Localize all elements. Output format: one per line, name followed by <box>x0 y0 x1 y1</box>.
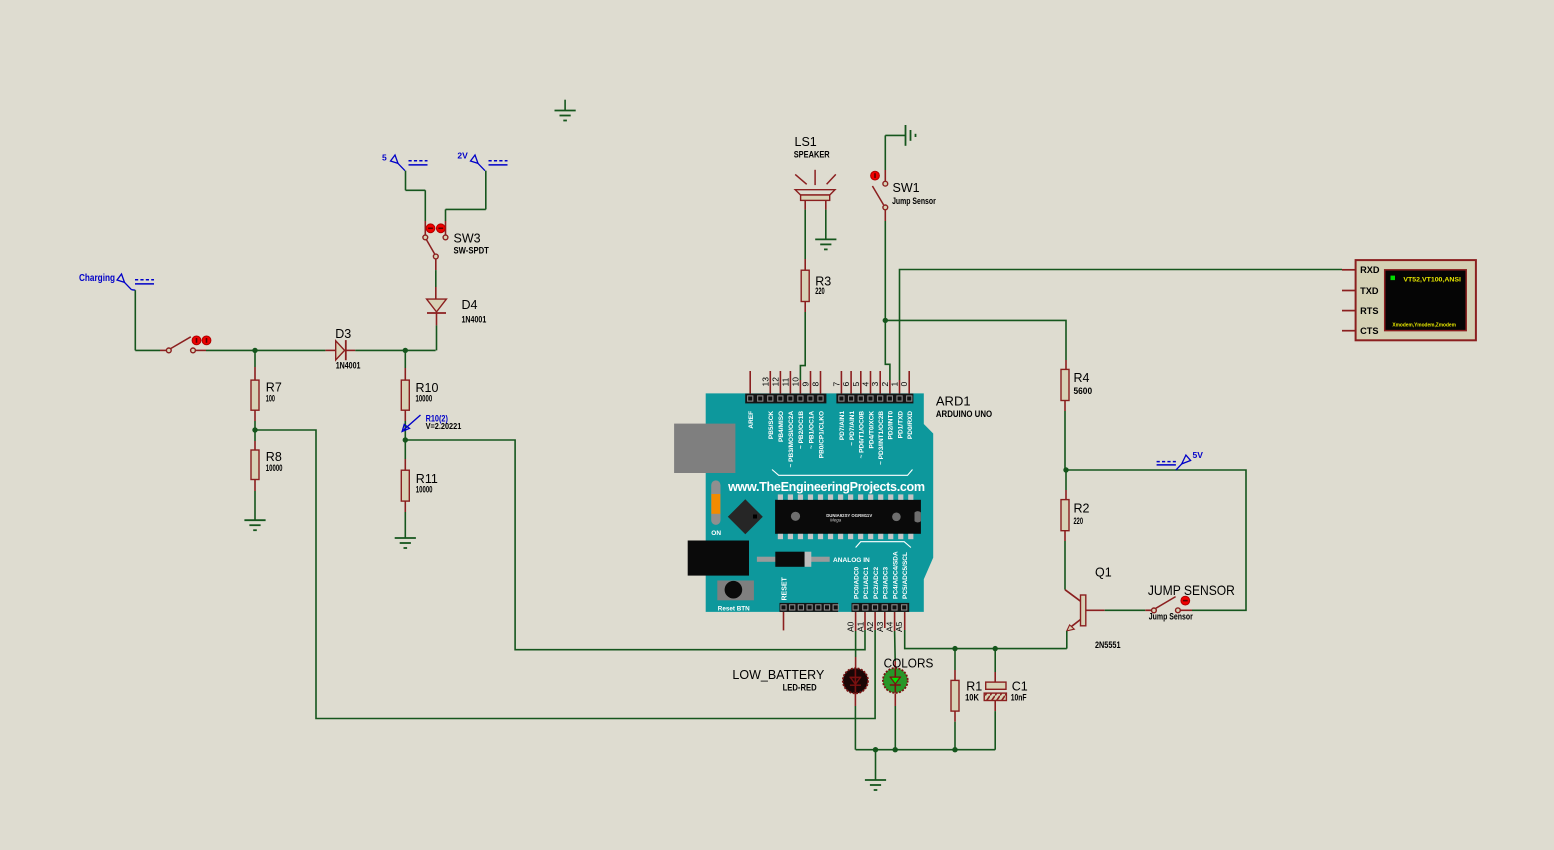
svg-text:A4: A4 <box>884 621 894 632</box>
svg-text:D3: D3 <box>335 327 351 341</box>
svg-text:12: 12 <box>770 377 780 387</box>
svg-text:R8: R8 <box>266 450 282 464</box>
svg-text:PB5/SCK: PB5/SCK <box>768 411 775 439</box>
svg-text:5600: 5600 <box>1074 386 1093 396</box>
svg-text:Reset BTN: Reset BTN <box>718 605 750 612</box>
svg-text:LED-RED: LED-RED <box>783 682 817 692</box>
svg-text:9: 9 <box>800 382 810 387</box>
svg-text:PC3/ADC3: PC3/ADC3 <box>883 566 890 599</box>
svg-text:1: 1 <box>890 382 900 387</box>
svg-text:JUMP SENSOR: JUMP SENSOR <box>1148 582 1235 598</box>
svg-text:LOW_BATTERY: LOW_BATTERY <box>732 668 825 682</box>
svg-text:www.TheEngineeringProjects.com: www.TheEngineeringProjects.com <box>727 480 925 494</box>
svg-text:PD0/RXD: PD0/RXD <box>907 411 914 439</box>
svg-text:RESET: RESET <box>782 576 789 600</box>
svg-text:220: 220 <box>1074 516 1084 526</box>
svg-text:A3: A3 <box>875 621 885 632</box>
svg-text:4: 4 <box>860 382 870 387</box>
svg-text:2N5551: 2N5551 <box>1095 640 1121 650</box>
svg-text:1N4001: 1N4001 <box>336 360 361 370</box>
svg-text:A1: A1 <box>855 621 865 632</box>
svg-text:8: 8 <box>811 382 821 387</box>
svg-text:R7: R7 <box>266 381 282 395</box>
svg-text:6: 6 <box>841 382 851 387</box>
svg-text:~ PB1/OC1A: ~ PB1/OC1A <box>808 411 815 449</box>
svg-text:LS1: LS1 <box>795 135 817 149</box>
svg-text:A5: A5 <box>894 621 904 632</box>
svg-text:C1: C1 <box>1012 680 1028 694</box>
svg-text:R1: R1 <box>966 680 982 694</box>
svg-text:10000: 10000 <box>266 463 283 473</box>
svg-text:PD4/T0/XCK: PD4/T0/XCK <box>868 411 875 449</box>
svg-text:ON: ON <box>711 530 721 537</box>
svg-text:13: 13 <box>760 377 770 387</box>
svg-text:10K: 10K <box>965 693 979 703</box>
svg-text:CTS: CTS <box>1360 326 1378 336</box>
svg-text:SW1: SW1 <box>893 181 920 195</box>
svg-text:Mega: Mega <box>830 518 842 523</box>
svg-text:Jump Sensor: Jump Sensor <box>1149 612 1193 622</box>
svg-text:2: 2 <box>880 382 890 387</box>
svg-text:5: 5 <box>382 153 387 163</box>
svg-text:R4: R4 <box>1074 371 1090 385</box>
svg-text:Xmodem,Ymodem,Zmodem: Xmodem,Ymodem,Zmodem <box>1392 322 1456 328</box>
svg-text:~ PB3/MOSI/OC2A: ~ PB3/MOSI/OC2A <box>788 411 795 468</box>
svg-text:A0: A0 <box>846 621 856 632</box>
svg-text:D4: D4 <box>462 298 478 312</box>
svg-text:RTS: RTS <box>1360 306 1378 316</box>
svg-text:~ PB2/OC1B: ~ PB2/OC1B <box>798 411 805 449</box>
svg-text:AREF: AREF <box>748 411 755 429</box>
svg-text:~ PD3/INT1/OC2B: ~ PD3/INT1/OC2B <box>878 411 885 465</box>
svg-text:PD7/AIN1: PD7/AIN1 <box>839 411 846 441</box>
svg-text:A2: A2 <box>865 621 875 632</box>
svg-text:10: 10 <box>790 377 800 387</box>
svg-text:10000: 10000 <box>416 394 433 404</box>
svg-text:SPEAKER: SPEAKER <box>794 150 830 160</box>
svg-text:0: 0 <box>899 382 909 387</box>
svg-text:2V: 2V <box>457 151 468 161</box>
svg-text:PD1/TXD: PD1/TXD <box>897 411 904 439</box>
svg-text:220: 220 <box>815 286 825 296</box>
svg-text:PB4/MISO: PB4/MISO <box>778 411 785 442</box>
svg-text:5V: 5V <box>1193 450 1204 460</box>
svg-text:TXD: TXD <box>1360 286 1379 296</box>
svg-text:COLORS: COLORS <box>884 657 934 671</box>
svg-text:10000: 10000 <box>416 485 433 495</box>
svg-text:Jump Sensor: Jump Sensor <box>892 196 936 206</box>
svg-text:ARD1: ARD1 <box>936 393 971 408</box>
svg-text:PC2/ADC2: PC2/ADC2 <box>873 566 880 599</box>
svg-text:PD2/INT0: PD2/INT0 <box>888 411 895 440</box>
svg-text:1N4001: 1N4001 <box>462 315 487 325</box>
svg-text:ARDUINO UNO: ARDUINO UNO <box>936 409 992 420</box>
svg-text:~ PD7/AIN1: ~ PD7/AIN1 <box>849 411 856 446</box>
svg-text:SW3: SW3 <box>454 232 481 246</box>
svg-text:R2: R2 <box>1074 502 1090 516</box>
svg-text:RXD: RXD <box>1360 265 1380 275</box>
svg-text:100: 100 <box>266 394 275 404</box>
svg-text:5: 5 <box>851 382 861 387</box>
svg-text:11: 11 <box>780 377 790 386</box>
svg-text:VT52,VT100,ANSI: VT52,VT100,ANSI <box>1403 276 1461 283</box>
svg-text:~ PD6/T1/OC0B: ~ PD6/T1/OC0B <box>859 411 866 459</box>
svg-text:PC5/ADC5/SCL: PC5/ADC5/SCL <box>902 552 909 599</box>
svg-text:10nF: 10nF <box>1011 693 1027 703</box>
svg-text:V=2.20221: V=2.20221 <box>426 421 462 431</box>
svg-text:PC1/ADC1: PC1/ADC1 <box>863 566 870 599</box>
svg-text:PB0/CP1/CLKO: PB0/CP1/CLKO <box>818 411 825 458</box>
svg-text:ANALOG IN: ANALOG IN <box>833 557 870 564</box>
svg-text:7: 7 <box>831 382 841 387</box>
svg-text:SW-SPDT: SW-SPDT <box>454 246 490 256</box>
svg-text:PC4/ADC4/SDA: PC4/ADC4/SDA <box>892 551 899 599</box>
svg-text:Q1: Q1 <box>1095 566 1112 580</box>
svg-text:Charging: Charging <box>79 272 115 284</box>
svg-text:PC0/ADC0: PC0/ADC0 <box>853 566 860 599</box>
svg-text:3: 3 <box>870 382 880 387</box>
